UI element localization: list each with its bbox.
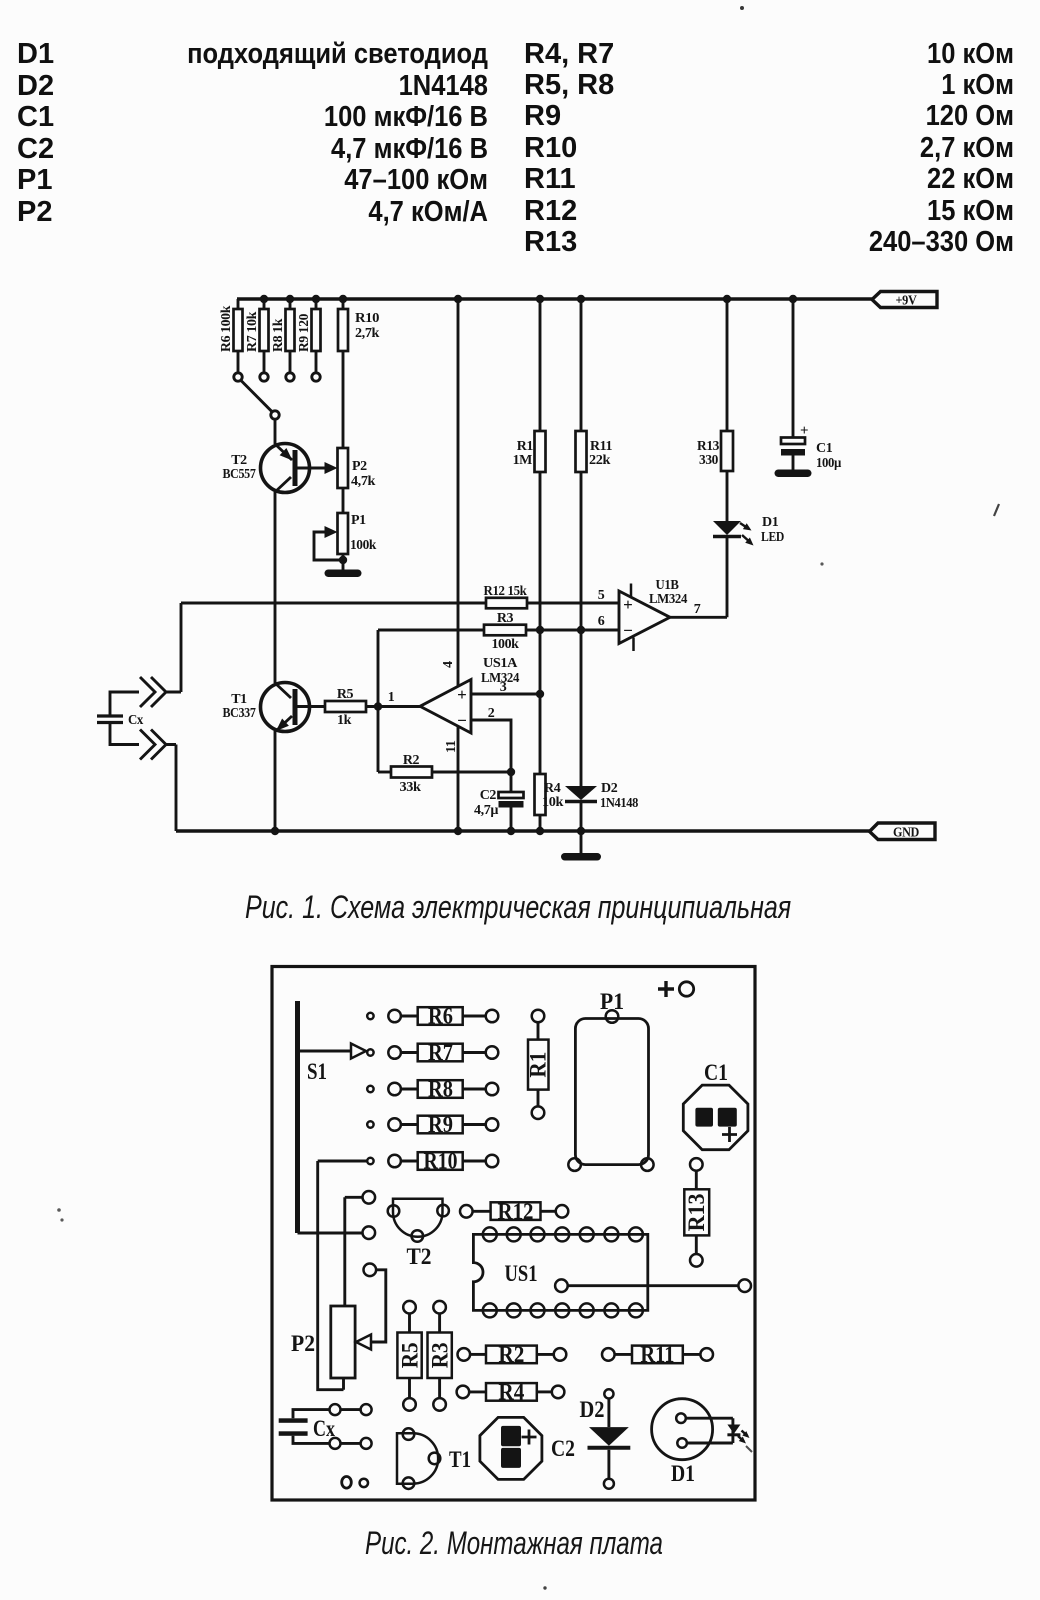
ground rail <box>176 829 870 832</box>
resistor R2 (PCB) <box>458 1348 471 1361</box>
pad Cx bottom 1 <box>330 1438 341 1449</box>
wire pad to P2 top <box>345 1197 363 1306</box>
resistor R7 (PCB) <box>388 1046 401 1059</box>
speck right of schematic <box>994 504 999 516</box>
svg-text:4,7k: 4,7k <box>351 474 376 489</box>
resistor R8 <box>289 299 292 309</box>
svg-text:+: + <box>800 423 809 439</box>
resistor R11 22k <box>580 299 583 431</box>
svg-text:R4: R4 <box>544 781 561 796</box>
ground bar under P1 <box>325 570 362 578</box>
svg-text:D1: D1 <box>671 1461 695 1486</box>
IC US1 top pad 5 <box>580 1227 594 1241</box>
IC US1 top pad 6 <box>604 1227 618 1241</box>
svg-text:R2: R2 <box>403 753 420 768</box>
svg-text:7: 7 <box>694 602 701 617</box>
junction R9/top rail <box>312 295 320 303</box>
power O pad <box>679 982 693 996</box>
caption figure 2 <box>365 1525 663 1562</box>
resistor R12 (PCB) <box>460 1205 473 1218</box>
wire +9V top rail <box>237 297 872 300</box>
wire U1A pin3 to R1 column <box>471 693 540 696</box>
svg-text:R6: R6 <box>428 1004 453 1029</box>
resistor R9 <box>315 299 318 309</box>
svg-text:R7: R7 <box>428 1040 453 1065</box>
transistor T1 footprint (PCB) <box>397 1433 438 1483</box>
switch S1 wiper arm <box>241 381 272 412</box>
resistor R10 (PCB) <box>388 1155 401 1168</box>
wire D1 to U1B output <box>670 538 727 617</box>
IC US1 bottom pad 3 <box>531 1303 545 1317</box>
pad P2 wiper <box>364 1264 377 1277</box>
IC US1 top pad 4 <box>555 1227 569 1241</box>
svg-text:6: 6 <box>598 614 605 629</box>
wire feedback vertical <box>377 630 380 772</box>
svg-text:P2: P2 <box>291 1331 315 1356</box>
potentiometer P1 (PCB) <box>575 1019 648 1165</box>
pad Cx top 2 <box>361 1404 372 1415</box>
resistor R5 (PCB) <box>403 1301 416 1314</box>
pad Cx bottom 2 <box>361 1438 372 1449</box>
IC US1 bottom pad 1 <box>483 1303 497 1317</box>
svg-text:R13: R13 <box>697 439 719 454</box>
S1 wiper arrow <box>351 1044 366 1059</box>
switch S1 bus <box>295 1001 300 1233</box>
switch S1 contact under R6 <box>234 373 242 381</box>
wire T2 collector down to T1 collector <box>274 492 277 683</box>
pad US1 inner <box>555 1279 568 1292</box>
svg-text:5: 5 <box>598 588 605 603</box>
ground symbol <box>561 853 601 861</box>
svg-text:R12: R12 <box>498 1199 534 1224</box>
IC US1 top pad 7 <box>629 1227 643 1241</box>
svg-text:S1: S1 <box>307 1059 327 1084</box>
svg-text:D2: D2 <box>601 781 618 796</box>
pad left small (R6 row) <box>367 1013 373 1019</box>
wire P2 wiper loop <box>371 1270 386 1342</box>
wire Cx bottom to probe <box>110 724 139 745</box>
potentiometer P2 (PCB) <box>331 1306 355 1378</box>
svg-text:R3: R3 <box>428 1342 453 1368</box>
wire P2 to P1 <box>342 488 345 513</box>
svg-text:C1: C1 <box>704 1060 728 1085</box>
resistor R13 (PCB) <box>690 1158 703 1171</box>
speck near D1 label <box>746 1446 752 1452</box>
resistor R4 10k <box>539 694 542 774</box>
svg-text:R8 1k: R8 1k <box>271 318 286 352</box>
junction R3/R1 column <box>536 626 544 634</box>
svg-text:D1: D1 <box>762 515 779 530</box>
capacitor C1 100u <box>792 299 795 438</box>
pad P1 bottom-left <box>568 1158 581 1171</box>
svg-text:2,7k: 2,7k <box>355 326 380 341</box>
wire Cx bottom row <box>293 1436 361 1444</box>
junction pin3/R1 column <box>536 690 544 698</box>
pad left small (R10 row) <box>367 1158 373 1164</box>
wire Cx top row <box>293 1410 361 1419</box>
svg-text:100µ: 100µ <box>816 456 841 471</box>
junction R8/top rail <box>286 295 294 303</box>
junction R3/R11 column <box>577 626 585 634</box>
svg-text:US1: US1 <box>505 1261 538 1286</box>
resistor R10 2.7k <box>342 299 345 309</box>
resistor R1 (PCB) <box>532 1010 545 1023</box>
pad spare oval <box>342 1477 352 1489</box>
svg-text:R2: R2 <box>498 1342 524 1367</box>
svg-text:P1: P1 <box>351 513 366 528</box>
transistor T1 BC337 <box>261 683 310 732</box>
resistor R3 (PCB) <box>433 1301 446 1314</box>
probe connector lower <box>140 730 166 760</box>
svg-text:T1: T1 <box>449 1447 471 1472</box>
wire U1A pin4 to +9V rail <box>457 299 460 686</box>
resistor R6 <box>237 299 240 309</box>
junction T1 emitter/ground rail <box>271 827 279 835</box>
pad left small (R9 row) <box>367 1121 373 1127</box>
resistor R11 (PCB) <box>602 1348 615 1361</box>
svg-text:BC337: BC337 <box>223 706 256 721</box>
resistor R12 15k <box>486 598 527 609</box>
svg-text:R10: R10 <box>424 1149 458 1174</box>
wire Cx top to probe <box>110 692 139 715</box>
speck top right <box>740 6 744 10</box>
wire R10 pad to P2 bottom <box>318 1161 367 1390</box>
resistor R1 1M <box>539 299 542 431</box>
junction P1 bottom <box>339 556 347 564</box>
svg-text:R9 120: R9 120 <box>297 314 312 352</box>
resistor R7 <box>263 299 266 309</box>
wire switch to T2 emitter <box>274 419 277 444</box>
terminal +9V <box>872 292 937 308</box>
junction pin4 wire/top rail <box>454 295 462 303</box>
wire P1 wiper loop to bottom <box>314 532 343 560</box>
resistor R6 (PCB) <box>388 1010 401 1023</box>
capacitor C2 (PCB) <box>480 1417 542 1479</box>
wire U1A pin2 down to R2 line <box>471 720 511 772</box>
ground bar under C1 <box>775 470 812 478</box>
resistor R5 1k <box>325 701 366 712</box>
svg-text:R8: R8 <box>428 1077 453 1102</box>
svg-text:1N4148: 1N4148 <box>600 796 638 811</box>
svg-text:4,7µ: 4,7µ <box>474 803 498 818</box>
svg-text:LM324: LM324 <box>649 592 687 607</box>
svg-text:R1: R1 <box>526 1052 551 1078</box>
pad spare small <box>360 1479 368 1487</box>
resistor R2 33k <box>378 771 391 774</box>
wire C1 to ground bar <box>792 456 795 471</box>
speck left margin <box>57 1208 61 1212</box>
junction pin1/feedback <box>374 702 382 710</box>
svg-text:R11: R11 <box>590 439 612 454</box>
wire U1A pin11 to ground rail <box>457 726 460 831</box>
potentiometer P1 100k <box>338 513 349 554</box>
capacitor Cx (PCB) <box>279 1418 308 1423</box>
wire T1 emitter to ground rail <box>274 731 277 831</box>
svg-text:US1A: US1A <box>483 656 518 671</box>
wire T2 base to P2 wiper <box>297 467 327 470</box>
svg-text:22k: 22k <box>589 453 611 468</box>
IC US1 top pad 3 <box>531 1227 545 1241</box>
junction R1/top rail <box>536 295 544 303</box>
svg-text:Cx: Cx <box>313 1416 335 1441</box>
svg-text:C2: C2 <box>480 788 497 803</box>
pad P1 bottom-right <box>641 1158 654 1171</box>
resistor R8 (PCB) <box>388 1083 401 1096</box>
junction R10/top rail <box>339 295 347 303</box>
wire D2 to ground rail <box>580 803 583 831</box>
wire R2 junction to C2 <box>510 772 513 792</box>
IC US1 bottom pad 6 <box>604 1303 618 1317</box>
wire probe to ground rail <box>166 745 176 832</box>
junction C1/top rail <box>789 295 797 303</box>
junction pin11/ground rail <box>454 827 462 835</box>
svg-text:R9: R9 <box>428 1112 453 1137</box>
potentiometer P2 4.7k <box>338 448 349 488</box>
svg-text:R6 100k: R6 100k <box>219 305 234 352</box>
switch S1 contact under R9 <box>312 373 320 381</box>
svg-text:+9V: +9V <box>896 294 917 309</box>
LED D1 <box>713 521 741 535</box>
junction R11/top rail <box>577 295 585 303</box>
svg-text:33k: 33k <box>400 780 422 795</box>
svg-text:R11: R11 <box>640 1342 674 1367</box>
junction R4/ground rail <box>536 827 544 835</box>
svg-text:T2: T2 <box>407 1244 432 1269</box>
svg-text:10k: 10k <box>542 795 564 810</box>
IC US1 bottom pad 7 <box>629 1303 643 1317</box>
wire probe to left bus <box>166 603 181 692</box>
potentiometer P2 wiper arrow <box>325 462 338 474</box>
svg-text:R1: R1 <box>517 439 534 454</box>
svg-text:+: + <box>457 685 467 704</box>
pad left small (R8 row) <box>367 1086 373 1092</box>
P2 wiper arrow (PCB) <box>356 1335 371 1350</box>
svg-text:U1B: U1B <box>656 578 679 593</box>
svg-text:−: − <box>623 621 633 640</box>
svg-text:T2: T2 <box>231 453 247 468</box>
wire S1 bottom to pad <box>298 1232 363 1235</box>
potentiometer P1 wiper arrow <box>325 526 338 538</box>
svg-text:R3: R3 <box>497 611 514 626</box>
svg-text:11: 11 <box>444 740 459 753</box>
svg-text:T1: T1 <box>231 692 247 707</box>
svg-text:330: 330 <box>699 453 718 468</box>
switch S1 contact under R7 <box>260 373 268 381</box>
wire T1 base to R5 <box>297 705 325 708</box>
svg-text:R5: R5 <box>398 1342 423 1368</box>
wire node to R12 and pin5 <box>181 602 619 605</box>
pad P1 top <box>606 1010 619 1023</box>
svg-text:1: 1 <box>388 690 395 705</box>
probe connector upper <box>140 677 166 707</box>
resistor R3 100k <box>484 625 526 636</box>
transistor T2 BC557 <box>261 444 310 493</box>
op-amp U1A LM324 <box>420 680 471 734</box>
svg-text:C2: C2 <box>551 1436 575 1461</box>
svg-text:GND: GND <box>893 826 919 841</box>
diode D2 1N4148 <box>565 786 597 800</box>
diode D2 (PCB) <box>604 1389 613 1398</box>
pad right of US1 <box>738 1279 751 1292</box>
svg-text:+: + <box>623 595 633 614</box>
pad left small (R7 row) <box>367 1049 373 1055</box>
junction R7/top rail <box>260 295 268 303</box>
LED D1 (PCB) <box>652 1399 713 1460</box>
pad S1 bottom <box>363 1226 376 1239</box>
junction C2/ground rail <box>507 827 515 835</box>
svg-text:R5: R5 <box>337 687 354 702</box>
svg-text:4: 4 <box>441 661 456 668</box>
svg-text:D2: D2 <box>580 1397 605 1422</box>
wire P1 bottom <box>342 554 345 570</box>
IC US1 bottom pad 4 <box>555 1303 569 1317</box>
wire US1 inner pad to right pad <box>568 1284 739 1287</box>
svg-text:R10: R10 <box>355 311 379 326</box>
speck below caption 2 <box>543 1586 546 1589</box>
junction R13/top rail <box>723 295 731 303</box>
PCB board outline <box>272 967 755 1501</box>
resistor R13 330 <box>726 299 729 431</box>
IC US1 bottom pad 5 <box>580 1303 594 1317</box>
resistor R9 (PCB) <box>388 1118 401 1131</box>
wire R5 to U1A output pin1 <box>366 705 420 708</box>
wire R11 junction to D2 <box>580 630 583 786</box>
switch S1 contact under R8 <box>286 373 294 381</box>
svg-text:R4: R4 <box>498 1379 524 1404</box>
svg-text:R12 15k: R12 15k <box>484 584 528 599</box>
svg-text:1k: 1k <box>337 713 352 728</box>
svg-text:BC557: BC557 <box>223 467 256 482</box>
speck mid right <box>820 562 823 565</box>
svg-text:Cx: Cx <box>128 713 143 728</box>
junction D2/ground rail <box>577 827 585 835</box>
IC US1 bottom pad 2 <box>507 1303 521 1317</box>
svg-text:LED: LED <box>761 530 784 545</box>
capacitor Cx <box>97 716 123 723</box>
wire S1 wiper row <box>298 1050 352 1053</box>
svg-text:R7 10k: R7 10k <box>245 311 260 352</box>
junction R2/C2/pin2 <box>507 768 515 776</box>
wire C2 to ground rail <box>510 808 513 832</box>
op-amp U1B LM324 <box>619 591 670 644</box>
wire feedback node to R3 and pin6 <box>378 629 619 632</box>
svg-text:100k: 100k <box>350 538 377 553</box>
svg-text:100k: 100k <box>492 637 520 652</box>
transistor T2 footprint (PCB) <box>393 1199 443 1237</box>
switch S1 wiper contact <box>271 411 279 419</box>
IC US1 outline <box>473 1234 647 1310</box>
IC US1 top pad 1 <box>483 1227 497 1241</box>
svg-text:R13: R13 <box>684 1193 709 1231</box>
wire ground rail to ground symbol <box>580 831 583 853</box>
terminal GND <box>870 823 936 840</box>
pad Cx top 1 <box>330 1404 341 1415</box>
IC US1 top pad 2 <box>507 1227 521 1241</box>
svg-text:C1: C1 <box>816 441 833 456</box>
pad T2 area top <box>363 1191 376 1204</box>
svg-text:P2: P2 <box>352 459 367 474</box>
svg-text:1M: 1M <box>513 453 533 468</box>
resistor R4 (PCB) <box>457 1386 470 1399</box>
caption figure 1 <box>245 889 791 926</box>
capacitor C2 4.7u <box>499 792 524 798</box>
power + mark <box>658 981 674 997</box>
